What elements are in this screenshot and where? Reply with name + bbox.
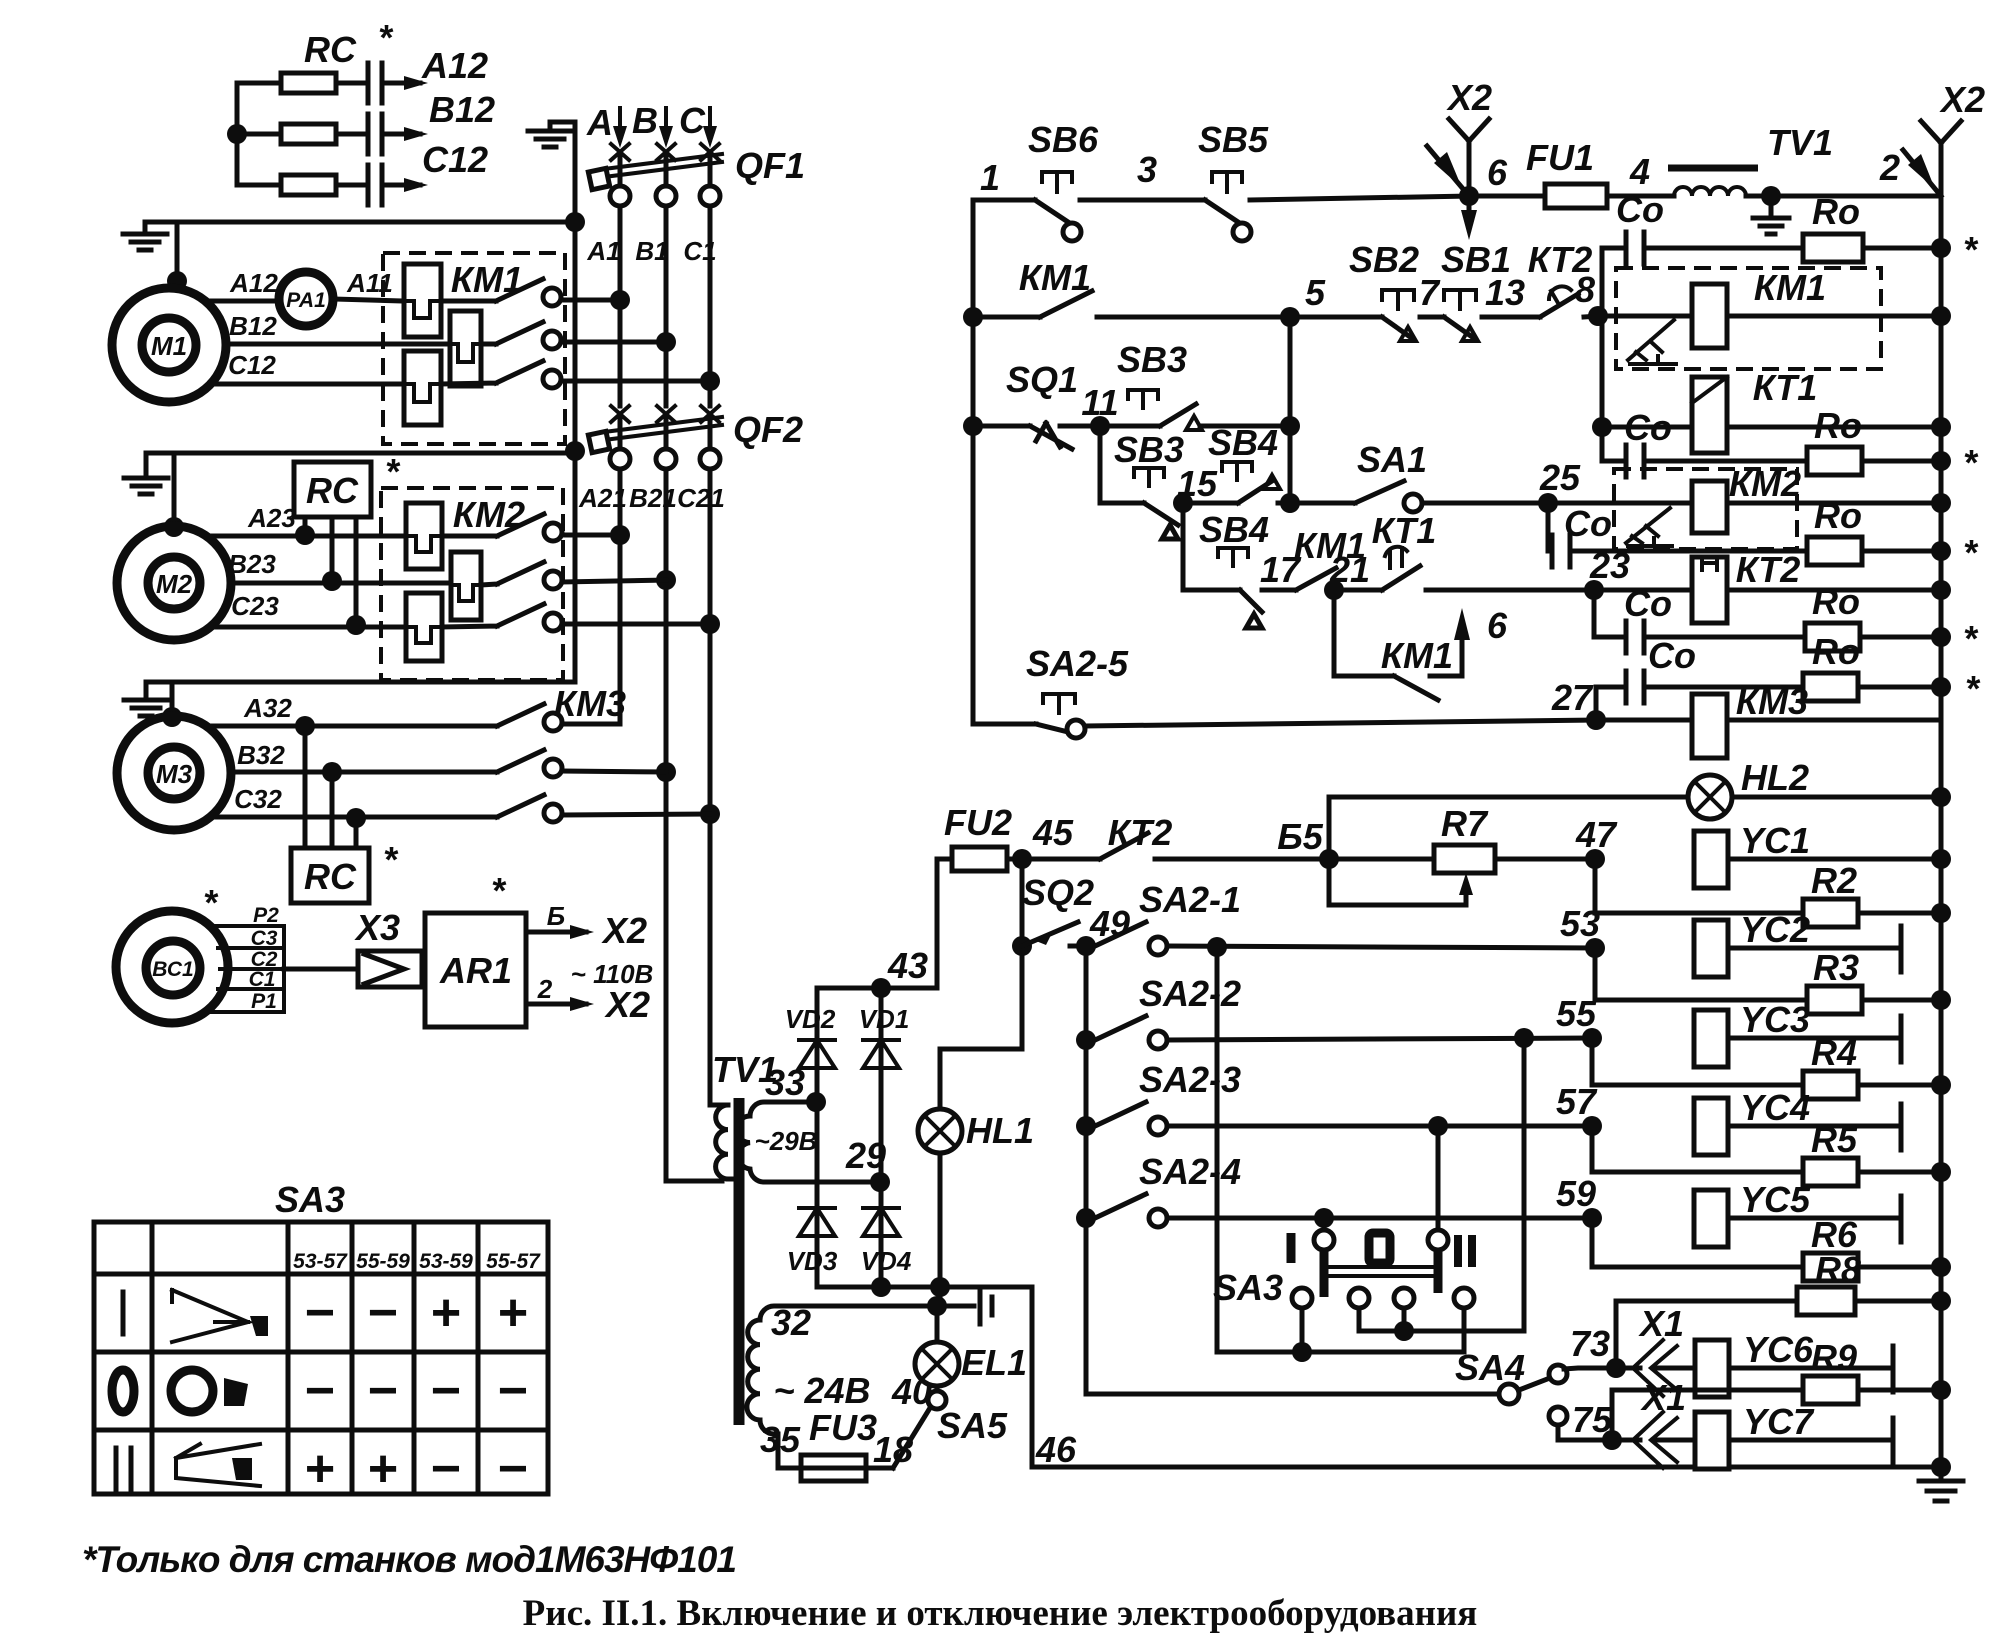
coil KM1	[1692, 284, 1727, 348]
svg-text:VD3: VD3	[787, 1246, 838, 1276]
contact SA2-3	[1095, 1102, 1146, 1126]
node M3 top	[162, 707, 182, 727]
switch SQ1	[973, 423, 1072, 449]
switch SA2-5	[973, 724, 1068, 732]
svg-text:Со: Со	[1624, 583, 1672, 624]
node 11	[1090, 416, 1110, 436]
svg-text:59: 59	[1556, 1173, 1596, 1214]
node bus C1 M1 junction	[700, 371, 720, 391]
svg-text:6: 6	[1487, 152, 1508, 193]
svg-text:SВ4: SВ4	[1208, 422, 1278, 463]
svg-text:КТ2: КТ2	[1108, 812, 1173, 853]
node bus C21 M2 junction	[700, 614, 720, 634]
svg-text:TV1: TV1	[1767, 122, 1833, 163]
wire M3 phase C32	[209, 815, 497, 820]
wire M1 phase A12	[205, 299, 279, 304]
node 5	[1280, 307, 1300, 327]
wire M3 phase A32	[206, 724, 497, 729]
svg-text:53: 53	[1560, 903, 1600, 944]
node 27	[1586, 710, 1606, 730]
svg-text:SQ1: SQ1	[1006, 359, 1078, 400]
node HL2 rail	[1931, 787, 1951, 807]
svg-text:−: −	[368, 1284, 398, 1342]
svg-text:FU2: FU2	[944, 802, 1012, 843]
node B5	[1319, 849, 1339, 869]
node earth bus M1 junction	[565, 212, 585, 232]
svg-text:~29В: ~29В	[755, 1126, 818, 1156]
svg-text:Со: Со	[1624, 407, 1672, 448]
wire earth bus vertical	[573, 122, 578, 682]
svg-text:5: 5	[1305, 272, 1326, 313]
svg-text:Rо: Rо	[1814, 495, 1862, 536]
node B32 RC junction	[322, 762, 342, 782]
svg-text:YС5: YС5	[1740, 1179, 1811, 1220]
svg-text:В12: В12	[429, 89, 495, 130]
svg-text:VD2: VD2	[785, 1004, 836, 1034]
resistor RC row1	[237, 81, 281, 86]
svg-text:С21: С21	[677, 483, 725, 513]
capacitor Co row1	[1602, 246, 1803, 251]
wire M3 frame to earth bus	[146, 680, 575, 685]
wire bus B1	[664, 206, 669, 406]
node 75	[1602, 1430, 1622, 1450]
breaker QF1 pivot A	[610, 186, 630, 206]
svg-text:YС2: YС2	[1740, 909, 1810, 950]
ground symbol at line entry	[528, 122, 575, 147]
node R6 rail	[1931, 1257, 1951, 1277]
svg-text:2: 2	[1879, 147, 1900, 188]
lamp EL1	[915, 1342, 959, 1386]
svg-text:В12: В12	[229, 311, 277, 341]
node 73	[1606, 1358, 1626, 1378]
contact SA3 fixed c3	[1394, 1288, 1414, 1308]
svg-text:*: *	[1963, 229, 1979, 270]
terminal bar YC2	[1899, 926, 1904, 972]
svg-text:Х2: Х2	[601, 910, 647, 951]
coil KT2	[1594, 588, 1692, 593]
terminal bar YC4	[1899, 1104, 1904, 1150]
breaker QF2 blade B	[664, 414, 669, 449]
svg-text:С32: С32	[234, 784, 282, 814]
breaker QF1 blade C	[708, 152, 713, 186]
resistor Ro row5	[1803, 673, 1858, 701]
wire row8 into KM1 box	[1598, 314, 1692, 319]
coil YC6	[1695, 1340, 1729, 1397]
contact KM3 pole A	[497, 704, 544, 726]
node SA2-4 tee	[1076, 1208, 1096, 1228]
svg-text:SВ5: SВ5	[1198, 119, 1269, 160]
contact KT2 row45	[1100, 833, 1148, 859]
svg-text:25: 25	[1539, 457, 1581, 498]
svg-text:Б: Б	[547, 901, 565, 931]
node TV1 ground tap	[1761, 186, 1781, 206]
node C23 RC junction	[346, 615, 366, 635]
table SA3 column lines	[152, 1222, 478, 1494]
svg-text:Rо: Rо	[1814, 405, 1862, 446]
svg-text:SА2-2: SА2-2	[1139, 973, 1241, 1014]
wire M3 stem	[170, 682, 175, 717]
dashed box KM1 contactor	[1616, 268, 1881, 369]
contact SA3 moving II	[1428, 1230, 1448, 1250]
svg-text:Х2: Х2	[604, 984, 650, 1025]
wire KT2 coil to rail	[1727, 588, 1941, 593]
svg-text:*: *	[491, 870, 507, 911]
wire bus C1	[708, 206, 713, 406]
node SQ2 tee	[1012, 936, 1032, 956]
node 24V common	[927, 1296, 947, 1316]
wire M1 phase C12	[210, 382, 404, 387]
node bottom rail ground	[1931, 1457, 1951, 1477]
svg-text:VD1: VD1	[859, 1004, 910, 1034]
contact KM1 row6 branch	[1394, 676, 1438, 700]
svg-text:*: *	[385, 451, 401, 492]
svg-text:Со: Со	[1616, 189, 1664, 230]
wire node5 to SB2	[1290, 315, 1382, 320]
wire Co KT1 left leg	[1600, 248, 1605, 461]
contact SA3 moving I	[1314, 1230, 1334, 1250]
svg-text:Б5: Б5	[1277, 816, 1323, 857]
node KT1 left	[1592, 417, 1612, 437]
wire M3 phase B32	[231, 770, 497, 775]
svg-text:−: −	[368, 1362, 398, 1420]
wire rectifier minus to 24V common	[938, 1287, 943, 1306]
wire right rail	[1939, 196, 1944, 1467]
coil YC4	[1694, 1098, 1728, 1155]
rectifier left leg	[815, 988, 820, 1287]
node bus A1 M1 junction	[610, 290, 630, 310]
svg-text:RC: RC	[304, 856, 357, 897]
coil YC5	[1694, 1190, 1728, 1247]
wire SA3 riser I	[1322, 1218, 1327, 1231]
node R4 rail	[1931, 1075, 1951, 1095]
transformer TV1 secondary 24V winding	[747, 1306, 938, 1468]
thermal element KK2 phase C	[406, 593, 442, 661]
svg-text:КТ1: КТ1	[1372, 510, 1437, 551]
svg-text:С1: С1	[249, 968, 276, 991]
node 47	[1585, 849, 1605, 869]
node B23 RC junction	[322, 571, 342, 591]
wire RC M3 lead C	[354, 818, 359, 848]
node 49	[1076, 936, 1096, 956]
svg-text:FU1: FU1	[1526, 137, 1594, 178]
svg-text:13: 13	[1485, 272, 1525, 313]
node rectifier minus lamp	[930, 1277, 950, 1297]
terminal bar YC5	[1899, 1196, 1904, 1242]
capacitor Co row5	[1596, 687, 1803, 720]
wire node5 vertical	[1288, 317, 1293, 503]
breaker QF2 pole B X mark	[657, 406, 675, 422]
svg-text:−: −	[431, 1362, 461, 1420]
wire RC M3 lead B	[330, 772, 335, 848]
node R2 rail	[1931, 903, 1951, 923]
svg-text:В23: В23	[228, 549, 276, 579]
wire arrow 6 down	[1467, 196, 1472, 215]
wire phase A lead-in arrow	[618, 108, 622, 140]
wire AR1 output 2	[526, 1002, 586, 1007]
breaker QF2 linking bar	[604, 417, 722, 440]
resistor R4	[1592, 1038, 1803, 1085]
button SB2	[1382, 290, 1414, 309]
dashed box thermal relay M1	[383, 253, 565, 444]
svg-text:YС1: YС1	[1740, 820, 1810, 861]
ground symbol M2	[124, 453, 168, 494]
node bus B21 M2 junction	[656, 570, 676, 590]
svg-text:КМ2: КМ2	[453, 494, 525, 535]
node KM2 rail	[1931, 493, 1951, 513]
svg-text:*Только для станков мод1М63НФ1: *Только для станков мод1М63НФ101	[82, 1539, 736, 1580]
svg-text:53-59: 53-59	[419, 1250, 473, 1273]
svg-text:RC: RC	[304, 29, 357, 70]
wire node21 branch	[1334, 590, 1394, 676]
svg-text:Х2: Х2	[1939, 79, 1985, 120]
breaker QF1 pole B X mark	[657, 144, 675, 160]
breaker QF2 pivot A	[610, 449, 630, 469]
wire bus C21	[710, 469, 722, 1105]
svg-text:КТ1: КТ1	[1753, 367, 1818, 408]
connector X1 lower	[1633, 1412, 1677, 1468]
switch SA1	[1355, 481, 1404, 503]
svg-text:Р1: Р1	[251, 990, 277, 1013]
svg-text:SА2-1: SА2-1	[1139, 879, 1241, 920]
svg-text:КМ2: КМ2	[1729, 463, 1801, 504]
svg-text:М2: М2	[156, 569, 193, 599]
connector X2 at node 6	[1449, 119, 1489, 196]
switch SA5	[893, 1408, 930, 1468]
resistor Ro row3	[1807, 537, 1862, 565]
fuse FU3	[801, 1466, 866, 1471]
connector X1 upper	[1633, 1340, 1677, 1396]
svg-text:КТ2: КТ2	[1736, 549, 1801, 590]
wire EL1 bottom stem	[935, 1386, 940, 1391]
node R5 rail	[1931, 1162, 1951, 1182]
transformer TV1 secondary 29V winding	[737, 1102, 880, 1182]
node bus B1 M1 junction	[656, 332, 676, 352]
contact SA2-1	[1095, 922, 1146, 946]
terminal strip BC1	[212, 926, 284, 1012]
resistor Ro row2	[1807, 447, 1862, 475]
node R9 rail	[1931, 1380, 1951, 1400]
contact KM1 aux row5	[973, 291, 1092, 317]
wire M1 phase B12	[226, 342, 450, 347]
wire row1 start	[973, 198, 1035, 203]
table cam symbol row II	[176, 1444, 260, 1486]
svg-text:−: −	[498, 1362, 528, 1420]
table row label II	[116, 1448, 131, 1490]
wire M2 phase A23	[206, 534, 406, 539]
wire node15 vertical	[1181, 503, 1186, 590]
svg-text:В1: В1	[635, 236, 668, 266]
coil KT1	[1602, 425, 1692, 430]
svg-text:А21: А21	[578, 483, 627, 513]
node SA2-2 tee	[1076, 1030, 1096, 1050]
node SA3 c2c3	[1394, 1321, 1414, 1341]
coil YC1	[1694, 831, 1728, 888]
transformer TV1 primary winding	[722, 1105, 731, 1179]
node 53	[1585, 938, 1605, 958]
svg-text:КМ1: КМ1	[1019, 257, 1091, 298]
node Ro row2 rail	[1931, 451, 1951, 471]
svg-text:SА3: SА3	[1213, 1267, 1283, 1308]
terminal 75	[1549, 1407, 1567, 1425]
resistor R9	[1612, 1390, 1803, 1440]
node Ro row1 rail	[1931, 238, 1951, 258]
contact KM1 pole B	[481, 322, 543, 344]
svg-text:15: 15	[1177, 463, 1218, 504]
wire SA3 feed rail	[1217, 947, 1464, 1352]
contact SA2-2	[1095, 1016, 1146, 1040]
svg-text:SВ2: SВ2	[1349, 239, 1419, 280]
wire bus B21	[666, 469, 722, 1181]
svg-text:−: −	[498, 1440, 528, 1498]
lamp HL2	[1329, 795, 1941, 800]
ground symbol M1	[123, 222, 167, 250]
svg-text:47: 47	[1575, 814, 1618, 855]
wire phase B lead-in arrow	[664, 108, 668, 140]
button SB3 second on row15	[1134, 468, 1164, 486]
node 29	[870, 1172, 890, 1192]
svg-text:С23: С23	[231, 591, 279, 621]
switch SQ2	[1022, 922, 1078, 946]
contact KM3 pole B	[497, 750, 544, 772]
svg-text:11: 11	[1081, 382, 1118, 423]
contact KM1 pole C	[441, 361, 543, 384]
capacitor RC row2	[336, 132, 420, 137]
svg-text:Rо: Rо	[1812, 191, 1860, 232]
svg-text:А23: А23	[247, 503, 296, 533]
svg-text:−: −	[305, 1362, 335, 1420]
resistor Ro row1	[1803, 234, 1863, 262]
resistor R3	[1595, 948, 1807, 1000]
breaker QF1 handle square	[588, 168, 609, 189]
svg-text:С3: С3	[251, 927, 278, 950]
svg-text:*: *	[1965, 668, 1981, 709]
wire RC M2 lead A	[303, 517, 308, 535]
tacho generator BC1	[116, 911, 228, 1023]
dashed box KM2 contactor	[1614, 469, 1797, 549]
svg-text:R2: R2	[1811, 860, 1857, 901]
contact KM2 pole A	[442, 514, 544, 536]
svg-text:А: А	[586, 102, 613, 143]
svg-text:SА2-3: SА2-3	[1139, 1059, 1241, 1100]
node 57	[1582, 1116, 1602, 1136]
contact KM2 pole B	[481, 562, 544, 585]
resistor R8	[1616, 1301, 1797, 1368]
svg-text:М3: М3	[156, 759, 193, 789]
svg-text:SА4: SА4	[1455, 1347, 1525, 1388]
breaker QF2 handle square	[588, 431, 609, 452]
svg-text:EL1: EL1	[961, 1342, 1027, 1383]
svg-text:*: *	[1963, 532, 1979, 573]
node 8	[1588, 306, 1608, 326]
rectifier node 43 wire	[817, 859, 937, 988]
svg-text:+: +	[498, 1284, 528, 1342]
svg-text:R7: R7	[1441, 803, 1489, 844]
svg-text:SА2-5: SА2-5	[1026, 643, 1129, 684]
terminal bar YC7	[1891, 1418, 1896, 1464]
node SA3 c1	[1292, 1342, 1312, 1362]
svg-text:RC: RC	[306, 470, 359, 511]
svg-text:В: В	[632, 100, 658, 141]
node KT1 rail	[1931, 417, 1951, 437]
node M2 top	[164, 517, 184, 537]
resistor R6	[1592, 1218, 1803, 1267]
contact SA3 fixed c1	[1292, 1288, 1312, 1308]
svg-text:SA3: SA3	[275, 1179, 345, 1220]
svg-text:6: 6	[1487, 605, 1508, 646]
capacitor RC row1	[336, 81, 420, 86]
breaker QF1 pivot C	[700, 186, 720, 206]
svg-text:2: 2	[537, 974, 553, 1004]
breaker QF2 blade A	[618, 414, 623, 449]
node 6	[1459, 186, 1479, 206]
fuse FU1	[1545, 184, 1607, 208]
wire M2 phase B23	[231, 581, 451, 586]
breaker QF1 pole C X mark	[701, 144, 719, 160]
node Ro row5 rail	[1931, 677, 1951, 697]
coil YC3	[1694, 1010, 1728, 1067]
wire RC M3 lead A	[303, 726, 308, 848]
svg-text:VD4: VD4	[861, 1246, 912, 1276]
wire M1 stem	[175, 222, 180, 281]
wire RC M2 lead B	[330, 517, 335, 581]
contact KM1 pole A	[441, 279, 543, 301]
svg-text:М1: М1	[151, 331, 187, 361]
breaker QF1 pole A X mark	[611, 144, 629, 160]
wire A11	[333, 299, 404, 301]
button SB4 first on row15	[1222, 462, 1252, 480]
contact SA3 fixed c2	[1349, 1288, 1369, 1308]
wire 46 vertical	[1032, 1287, 1934, 1467]
contact SA2-4	[1095, 1194, 1146, 1218]
svg-text:SA5: SA5	[937, 1405, 1008, 1446]
svg-text:Х1: Х1	[1640, 1377, 1686, 1418]
thermal element KK1 phase B	[450, 311, 481, 386]
svg-text:Рис. II.1. Включение и отключе: Рис. II.1. Включение и отключение электр…	[523, 1593, 1478, 1634]
svg-text:YС6: YС6	[1743, 1329, 1814, 1370]
coil YC7	[1695, 1412, 1729, 1469]
diode VD3	[799, 1208, 835, 1236]
wire SA2 left rail	[1086, 946, 1500, 1394]
svg-text:*: *	[1963, 618, 1979, 659]
svg-text:РА1: РА1	[286, 289, 326, 312]
svg-text:*: *	[1963, 442, 1979, 483]
svg-text:А32: А32	[243, 693, 292, 723]
wire HL1 leads	[938, 1049, 943, 1287]
resistor R5	[1592, 1126, 1803, 1172]
button SB1	[1444, 290, 1476, 309]
capacitor Co row2	[1602, 459, 1807, 464]
wire arrow 6 up	[1454, 608, 1470, 640]
wire R7 wiper bypass	[1329, 859, 1466, 905]
svg-text:R4: R4	[1811, 1032, 1857, 1073]
block AR1	[425, 913, 526, 1027]
table row label 0	[112, 1370, 134, 1412]
thermal element KK2 phase B	[451, 552, 481, 620]
node 59	[1582, 1208, 1602, 1228]
inductor TV1 primary tap	[1674, 187, 1746, 196]
svg-text:С12: С12	[228, 350, 276, 380]
breaker QF2 pole A X mark	[611, 406, 629, 422]
svg-text:8: 8	[1575, 269, 1595, 310]
wire EL1 top	[935, 1306, 940, 1342]
node row15 right	[1280, 493, 1300, 513]
svg-text:SВ6: SВ6	[1028, 119, 1099, 160]
svg-text:FU3: FU3	[809, 1407, 877, 1448]
diode VD4	[863, 1208, 899, 1236]
wire X3 to AR1	[422, 967, 425, 972]
button SB5	[1205, 200, 1244, 226]
box RC M2	[294, 462, 371, 517]
